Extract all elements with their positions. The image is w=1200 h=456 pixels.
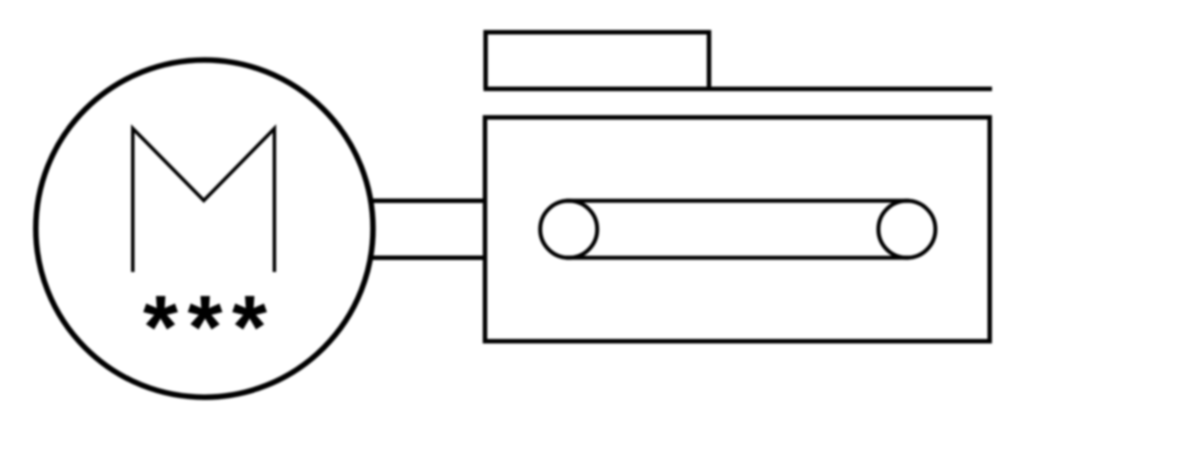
svg-text:*: *: [143, 278, 178, 378]
top rail wire: [484, 87, 993, 92]
belt top line: [566, 199, 909, 203]
shaft coupling upper wire: [369, 199, 485, 204]
svg-text:*: *: [187, 278, 222, 378]
motor phase marks ***: [143, 278, 267, 378]
motor M1 circle: [36, 60, 373, 397]
shaft coupling lower wire: [369, 256, 485, 261]
belt bottom line: [566, 256, 909, 260]
belt left roller: [540, 201, 597, 258]
belt right roller: [878, 201, 935, 258]
svg-text:*: *: [232, 278, 267, 378]
hopper rectangle on top: [486, 32, 709, 89]
motor letter M: [133, 129, 275, 273]
conveyor housing box: [485, 117, 990, 341]
